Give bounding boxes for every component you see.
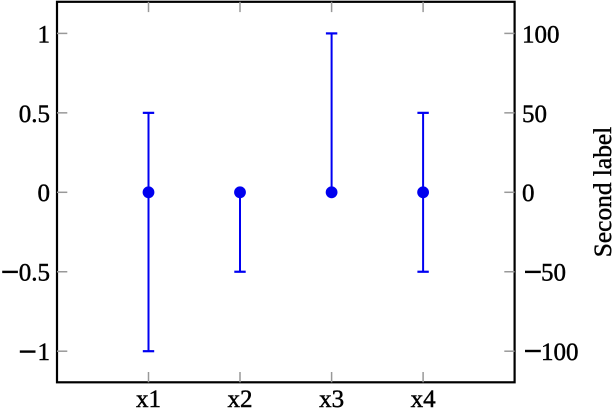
minus sign of left label -1 (20, 350, 36, 352)
tick left y=-0.5 (57, 271, 67, 273)
tick top x3 (331, 2, 333, 12)
left y tick labels (19, 21, 50, 366)
marker x4 (418, 187, 429, 198)
svg-text:1: 1 (38, 339, 51, 366)
svg-text:0.5: 0.5 (19, 101, 50, 128)
axis frame (57, 2, 515, 383)
svg-text:100: 100 (522, 21, 560, 48)
bottom axis ticks (149, 372, 424, 382)
svg-text:x3: x3 (319, 386, 344, 408)
svg-text:Second label: Second label (589, 127, 612, 257)
tick top x2 (239, 2, 241, 12)
tick right y=-50 (504, 271, 514, 273)
svg-text:x2: x2 (228, 386, 253, 408)
tick left y=1 (57, 32, 67, 34)
left axis ticks (57, 33, 67, 351)
marker x1 (143, 187, 154, 198)
tick right y=-100 (504, 350, 514, 352)
svg-text:0: 0 (522, 180, 535, 207)
svg-text:x1: x1 (136, 386, 161, 408)
minus sign of right label -100 (525, 350, 541, 352)
tick bottom x2 (239, 372, 241, 382)
x tick labels (136, 386, 436, 408)
tick left y=0.5 (57, 112, 67, 114)
svg-text:0: 0 (38, 180, 51, 207)
tick left y=-1 (57, 350, 67, 352)
error bar x1 (143, 113, 154, 351)
top axis ticks (149, 2, 424, 12)
minus sign of left label -0.5 (2, 271, 18, 273)
svg-text:100: 100 (541, 339, 579, 366)
tick top x1 (148, 2, 150, 12)
tick right y=100 (504, 32, 514, 34)
marker x3 (326, 187, 337, 198)
svg-text:0.5: 0.5 (19, 260, 50, 287)
minus sign of right label -50 (525, 271, 541, 273)
svg-text:50: 50 (522, 101, 547, 128)
svg-text:x4: x4 (411, 386, 437, 408)
tick bottom x4 (422, 372, 424, 382)
right axis title: Second label (589, 127, 612, 257)
tick bottom x3 (331, 372, 333, 382)
svg-text:50: 50 (541, 260, 566, 287)
marker x2 (235, 187, 246, 198)
error bar x4 (417, 113, 428, 272)
tick right y=0 (504, 191, 514, 193)
tick right y=50 (504, 112, 514, 114)
tick top x4 (422, 2, 424, 12)
error bar x2 (234, 192, 245, 271)
tick left y=0 (57, 191, 67, 193)
error bar x3 (326, 33, 337, 192)
tick bottom x1 (148, 372, 150, 382)
right y tick labels (522, 21, 579, 366)
svg-text:1: 1 (38, 21, 51, 48)
right axis ticks (504, 33, 514, 351)
